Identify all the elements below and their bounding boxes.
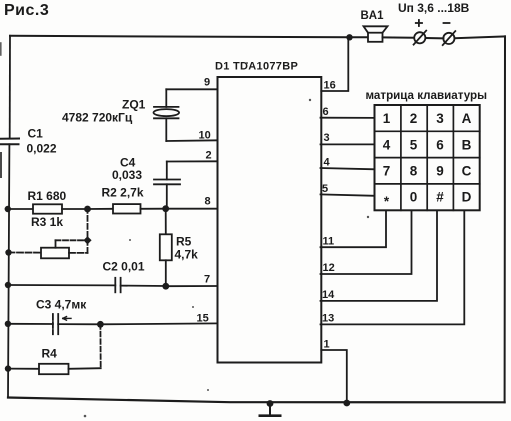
svg-text:4: 4 — [324, 157, 331, 169]
wire terminal1 to terminal2 — [426, 37, 444, 39]
svg-text:C1: C1 — [28, 127, 44, 141]
svg-text:0,022: 0,022 — [27, 142, 57, 156]
svg-text:#: # — [436, 190, 444, 205]
svg-text:6: 6 — [436, 137, 444, 152]
svg-text:R4: R4 — [42, 347, 58, 361]
wire speaker to terminal 1 — [383, 36, 415, 38]
svg-text:12: 12 — [323, 262, 335, 274]
wire top rail to speaker — [350, 36, 369, 38]
capacitor C3 polarized — [8, 314, 101, 334]
svg-text:C2 0,01: C2 0,01 — [103, 260, 145, 274]
svg-text:7: 7 — [383, 164, 391, 179]
svg-text:2: 2 — [206, 150, 212, 162]
scan edge artifact left upper — [0, 43, 2, 55]
svg-text:4,7k: 4,7k — [175, 248, 199, 262]
wire pin 12 to key column 2 — [321, 210, 412, 274]
node ground rail tap — [267, 400, 274, 407]
wire terminal2 to right rail — [455, 36, 505, 38]
label R5 4.7k — [175, 235, 199, 262]
scan noise specks — [84, 62, 370, 417]
svg-text:ZQ1: ZQ1 — [122, 98, 146, 112]
capacitor C4 — [154, 162, 180, 209]
svg-text:3: 3 — [324, 132, 330, 144]
terminal + (power plus) — [414, 31, 427, 45]
ground — [260, 404, 280, 416]
wire pin 16 — [321, 37, 348, 91]
node C2/R5 junction — [162, 283, 169, 290]
svg-text:матрица клавиатуры: матрица клавиатуры — [366, 88, 488, 102]
node left rail C2 — [5, 282, 11, 288]
resistor R1 — [8, 204, 88, 213]
node left rail C3 — [5, 321, 11, 327]
resistor R5 — [160, 209, 172, 287]
svg-text:*: * — [384, 194, 390, 209]
svg-text:5: 5 — [410, 137, 418, 152]
resistor R4 — [8, 364, 101, 374]
svg-text:R2 2,7k: R2 2,7k — [102, 186, 144, 200]
svg-text:C: C — [462, 164, 472, 179]
capacitor C2 — [8, 278, 166, 293]
node C3/R4 junction — [97, 321, 104, 328]
wire pin 4 to key row 3 — [321, 168, 375, 169]
label - polarity — [444, 22, 450, 24]
wire C3 to R4 dashed vertical — [99, 324, 101, 368]
svg-text:3: 3 — [436, 111, 444, 126]
label C4 value — [112, 156, 142, 183]
svg-text:8: 8 — [410, 164, 418, 179]
node R1/R2/R3 junction — [84, 206, 91, 213]
label + polarity — [416, 20, 422, 26]
keyboard matrix grid — [375, 105, 480, 210]
svg-text:BA1: BA1 — [361, 10, 385, 22]
svg-text:0,033: 0,033 — [112, 168, 142, 182]
speaker BA1 — [364, 26, 388, 42]
svg-text:D: D — [462, 190, 472, 205]
wire pin 15 — [100, 322, 217, 325]
wire pin 13 to key column 4 — [321, 210, 465, 324]
node pin1 / ground rail — [343, 400, 350, 407]
wire pin 11 to key column 1 — [321, 210, 387, 247]
svg-text:14: 14 — [322, 289, 335, 301]
IC D1 TDA1077BP body — [218, 77, 322, 363]
svg-text:0: 0 — [410, 190, 418, 205]
svg-text:R5: R5 — [176, 235, 192, 249]
node R3 tap diamond — [83, 236, 91, 244]
svg-text:R1 680: R1 680 — [28, 189, 67, 203]
wire pin 14 to key column 3 — [321, 210, 438, 301]
node R2/C4/R5 junction — [162, 205, 169, 212]
svg-text:R3 1k: R3 1k — [31, 215, 63, 229]
svg-text:4782 720кГц: 4782 720кГц — [62, 111, 133, 125]
svg-text:C3 4,7мк: C3 4,7мк — [36, 298, 87, 312]
svg-text:Рис.3: Рис.3 — [4, 2, 49, 19]
capacitor C1 — [1, 139, 20, 145]
svg-text:11: 11 — [323, 236, 335, 248]
svg-text:1: 1 — [324, 339, 330, 351]
wire bottom ground rail — [8, 398, 505, 403]
resistor R3 — [9, 212, 88, 258]
scan edge artifact left — [0, 153, 2, 177]
svg-text:2: 2 — [410, 111, 418, 126]
wire top power rail left segment — [10, 36, 350, 38]
wire pin 10 — [166, 139, 217, 142]
terminal - (power minus) — [443, 31, 456, 45]
wire left rail upper — [9, 36, 11, 139]
node junction top rail / pin16 — [346, 34, 352, 40]
svg-text:4: 4 — [383, 137, 391, 152]
label C1 value — [27, 127, 57, 156]
wire pin 9 — [166, 88, 217, 90]
svg-text:10: 10 — [199, 130, 211, 142]
wire pin 3 to key row 2 — [321, 143, 375, 145]
wire pin 8 — [166, 208, 218, 210]
svg-text:9: 9 — [204, 76, 210, 88]
wire pin 1 to ground rail — [321, 350, 347, 404]
label C3 polarity arrow — [63, 317, 71, 321]
wire pin 7 — [166, 285, 218, 287]
label key 1 — [383, 111, 472, 209]
svg-text:8: 8 — [205, 196, 211, 208]
wire pin 5 to key row 4 — [321, 194, 375, 195]
crystal ZQ1 — [154, 89, 180, 141]
svg-text:9: 9 — [436, 164, 444, 179]
svg-text:6: 6 — [323, 106, 329, 118]
svg-text:5: 5 — [322, 183, 328, 195]
wire pin 2 — [167, 160, 218, 162]
node left rail R3 — [5, 249, 11, 255]
wire right rail — [504, 36, 506, 402]
wire pin 6 to key row 1 — [321, 117, 375, 119]
node left rail R1 — [5, 206, 11, 212]
svg-text:A: A — [462, 111, 472, 126]
svg-text:B: B — [462, 137, 472, 152]
svg-text:13: 13 — [322, 313, 334, 325]
svg-text:Uп 3,6 ...18В: Uп 3,6 ...18В — [398, 1, 470, 15]
svg-text:15: 15 — [197, 313, 209, 325]
svg-text:1: 1 — [383, 111, 391, 126]
svg-text:D1 TDA1077BP: D1 TDA1077BP — [215, 61, 298, 73]
resistor R2 — [88, 204, 166, 213]
node left rail R4 — [5, 365, 11, 371]
wire left rail lower — [8, 144, 9, 397]
svg-text:16: 16 — [324, 80, 336, 92]
svg-text:7: 7 — [204, 274, 210, 286]
